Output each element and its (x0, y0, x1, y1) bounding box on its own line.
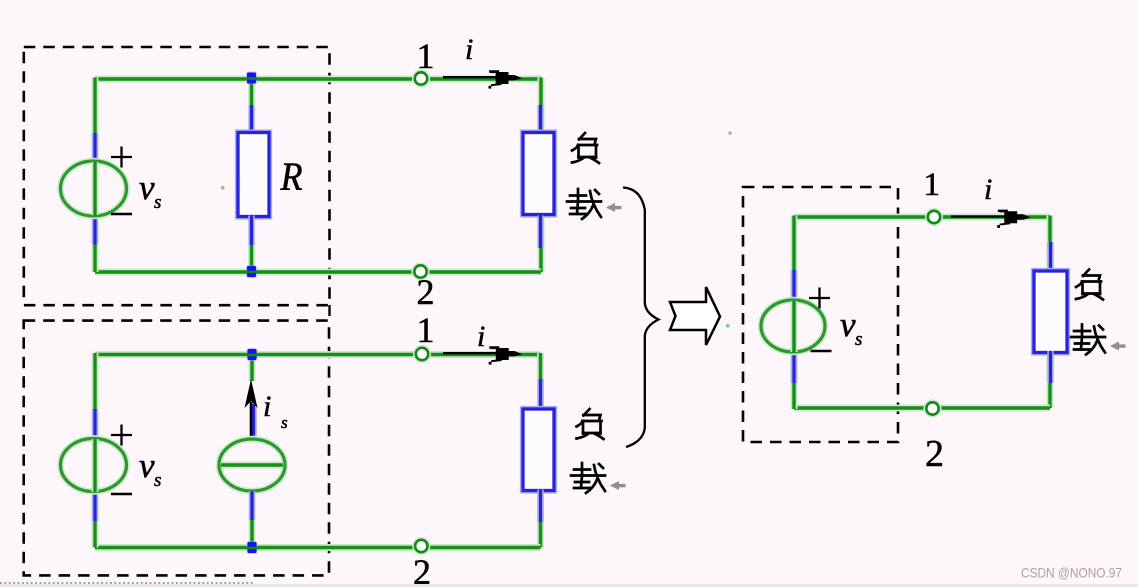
current arrow i (top circuit) (443, 70, 522, 88)
load resistor (top circuit) (523, 133, 554, 215)
label vs (bottom circuit) (139, 446, 161, 491)
terminal 2 (top circuit) (412, 263, 429, 280)
label fu (right load) (1076, 270, 1103, 300)
svg-text:i: i (984, 173, 992, 206)
plus of vs (right circuit) (809, 288, 830, 309)
stray mark c (729, 132, 732, 135)
blue lead above load (top circuit) (537, 105, 543, 134)
wire bottom rail (bottom circuit) (95, 544, 541, 551)
blue lead below load (bottom circuit) (537, 490, 543, 523)
junction node current source bottom (247, 541, 258, 554)
arrow of current source is (245, 379, 258, 438)
wire through vs (right circuit) (791, 301, 798, 352)
stray mark a (221, 186, 224, 189)
resistor R body (238, 133, 269, 217)
label fu (bottom load) (577, 409, 604, 439)
blue lead above vs (top circuit) (92, 133, 98, 163)
terminal 2 (bottom circuit) (413, 538, 430, 555)
voltage source vs (bottom circuit) (61, 439, 127, 492)
blue lead below current source (249, 491, 255, 521)
stray mark b (726, 324, 729, 327)
wire top rail (right circuit) (794, 214, 1050, 221)
dashed box (current source network, bottom) (24, 321, 329, 576)
curly brace (623, 188, 659, 448)
minus of vs (top circuit) (111, 213, 132, 216)
svg-text:s: s (154, 192, 161, 213)
terminal 1 (bottom circuit) (414, 346, 431, 363)
minus of vs (bottom circuit) (111, 493, 132, 496)
wire bottom rail (right circuit) (794, 405, 1050, 412)
svg-text:i: i (465, 33, 473, 66)
svg-text:CSDN @NONO.97: CSDN @NONO.97 (1021, 566, 1122, 581)
blue lead above load (right circuit) (1047, 242, 1053, 273)
wire bottom rail (top circuit) (95, 269, 541, 276)
label zai (top load) (567, 189, 601, 219)
blue lead above load (bottom circuit) (537, 379, 543, 412)
current arrow i (bottom circuit) (443, 346, 523, 364)
bottom gray strip (0, 584, 1138, 587)
junction node R bottom (246, 265, 257, 278)
svg-text:1: 1 (417, 310, 435, 350)
blue lead below vs (bottom circuit) (92, 492, 98, 521)
current arrow i (right circuit) (951, 210, 1031, 228)
svg-text:s: s (855, 329, 862, 350)
blue lead above vs (bottom circuit) (92, 409, 98, 440)
green stub below node (current source) (249, 355, 256, 381)
terminal 1 (top circuit) (413, 70, 430, 87)
wire left side (right circuit) (791, 216, 798, 410)
blue lead below vs (top circuit) (92, 216, 98, 245)
cursor mark (top load) (606, 203, 622, 212)
wire top rail (top circuit) (95, 76, 541, 83)
svg-text:v: v (840, 305, 856, 344)
minus of vs (right circuit) (811, 350, 832, 353)
wire right side (right circuit) (1047, 216, 1054, 409)
plus of vs (bottom circuit) (111, 425, 132, 446)
svg-text:v: v (139, 168, 155, 207)
blue lead above R (248, 104, 254, 134)
blue lead below R (248, 216, 254, 247)
label zai (right load) (1071, 325, 1105, 355)
label is (263, 390, 288, 432)
wire right side (top circuit) (538, 78, 545, 273)
svg-text:1: 1 (924, 167, 941, 203)
svg-text:s: s (154, 470, 161, 491)
svg-text:v: v (139, 446, 155, 485)
blue lead above current source (250, 404, 256, 438)
svg-text:i: i (263, 390, 271, 423)
svg-text:2: 2 (417, 272, 435, 312)
cursor mark (right load) (1110, 342, 1126, 351)
label fu (top load) (572, 133, 599, 163)
blue lead below vs (right circuit) (791, 351, 797, 383)
label zai (bottom load) (571, 463, 605, 493)
dashed box (equivalent source, right) (743, 187, 898, 442)
label vs (top circuit) (139, 168, 161, 213)
svg-text:1: 1 (417, 36, 435, 76)
current source is (bottom circuit) (219, 439, 285, 491)
blue lead above vs (right circuit) (791, 270, 797, 302)
green stub below R (248, 245, 255, 271)
wire through vs (bottom circuit) (92, 439, 99, 492)
blue lead below load (top circuit) (537, 216, 543, 249)
wire left side (bottom circuit) (92, 353, 99, 548)
dashed connector between boxes (328, 305, 330, 321)
svg-text:2: 2 (925, 433, 944, 475)
implication block arrow (670, 287, 720, 345)
svg-text:s: s (281, 413, 288, 432)
cursor mark (bottom load) (610, 481, 626, 490)
wire right side (bottom circuit) (537, 353, 544, 548)
voltage source vs (right circuit) (761, 300, 825, 352)
junction node current source top (247, 348, 258, 361)
load resistor (right circuit) (1034, 271, 1067, 353)
dotted selection line (0, 582, 253, 584)
terminal 2 (right circuit) (924, 400, 941, 417)
junction node R top (246, 72, 257, 85)
wire top rail (bottom circuit) (95, 351, 541, 358)
wire left side (top circuit) (92, 78, 99, 273)
voltage source vs (top circuit) (61, 161, 127, 216)
dashed box (voltage source network, top) (24, 47, 330, 305)
load resistor (bottom circuit) (523, 409, 554, 491)
svg-text:2: 2 (413, 552, 431, 587)
svg-text:i: i (477, 320, 485, 353)
blue lead below load (right circuit) (1047, 351, 1053, 383)
green stub above R (248, 80, 255, 105)
green stub below current source (249, 520, 256, 547)
terminal 1 (right circuit) (926, 209, 943, 226)
label vs (right circuit) (840, 305, 862, 350)
svg-text:R: R (280, 154, 303, 199)
bar of current source (221, 462, 283, 469)
plus of vs (top circuit) (111, 147, 132, 168)
wire through vs (top circuit) (92, 162, 99, 215)
